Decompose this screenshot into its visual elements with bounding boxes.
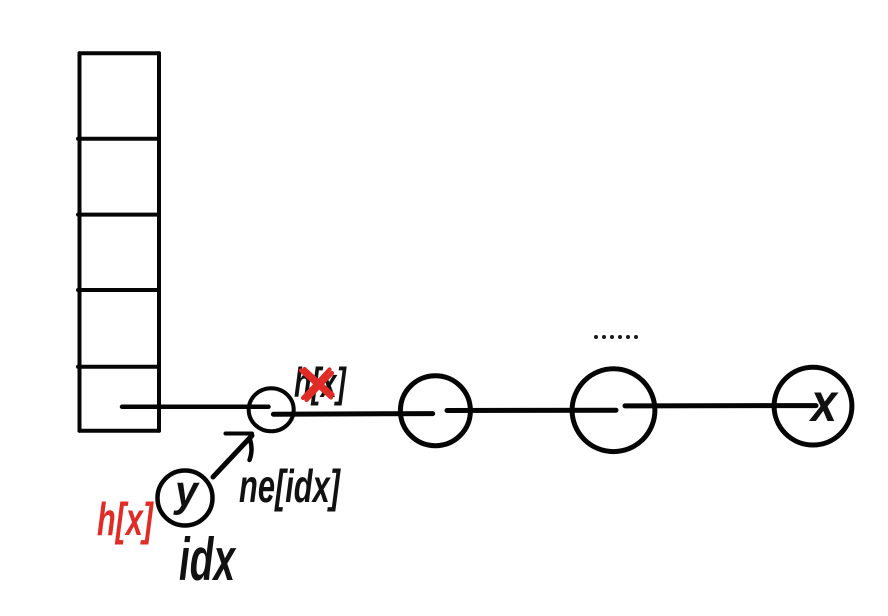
- node y (circle): [158, 471, 213, 526]
- svg-text:y: y: [173, 467, 200, 516]
- array h[] vertical stack of 5 cells: [78, 53, 159, 430]
- node idx (small circle): [249, 388, 294, 431]
- red X cross-out over h[x]: [301, 369, 333, 400]
- wire node 2 to node 3: [447, 408, 616, 413]
- svg-text:ne[idx]: ne[idx]: [239, 460, 341, 512]
- ellipsis dots above node 3: [594, 335, 638, 339]
- wire from bottom cell to node idx: [122, 405, 269, 410]
- svg-text:x: x: [808, 373, 838, 433]
- node 3 (circle): [572, 369, 655, 452]
- wire node 3 to node x: [625, 403, 816, 408]
- wire node idx to node 2: [273, 411, 432, 417]
- svg-text:idx: idx: [179, 526, 237, 593]
- node x (circle): [774, 367, 852, 445]
- node 2 (circle): [400, 376, 470, 446]
- svg-text:h[x]: h[x]: [97, 493, 154, 545]
- arrow ne[idx] pointing to node idx: [213, 434, 252, 478]
